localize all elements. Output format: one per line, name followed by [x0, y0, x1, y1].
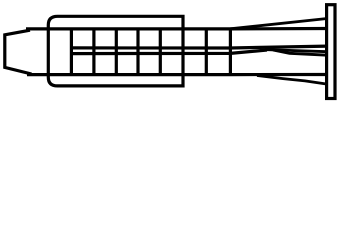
anchor tip (tapered nose) — [5, 30, 32, 74]
grid vertical rib 4 — [136, 29, 139, 75]
wire: band top edge (neck through expansion zone, continues to flange) — [26, 27, 327, 31]
middle fan line Mc — [273, 50, 327, 55]
grid vertical rib 3 — [115, 29, 118, 75]
flange plate — [327, 5, 335, 99]
top fan line T2 — [230, 19, 327, 29]
grid vertical rib 6 (beyond body step) — [205, 29, 208, 75]
grid end wall — [229, 29, 232, 75]
grid vertical rib 2 — [92, 29, 95, 75]
grid vertical rib 1 — [70, 29, 73, 75]
middle slot line lower (rises to merge) — [70, 50, 267, 54]
grid vertical rib 5 — [159, 29, 162, 75]
wire: band bottom edge (neck through expansion zone, continues to flange) — [27, 73, 327, 76]
body outline (rounded left corners, square right wall) — [48, 16, 183, 86]
middle slot line upper (continues to flange) — [70, 46, 327, 48]
bottom fan line D — [257, 76, 327, 85]
middle fan line Mb — [265, 50, 327, 52]
